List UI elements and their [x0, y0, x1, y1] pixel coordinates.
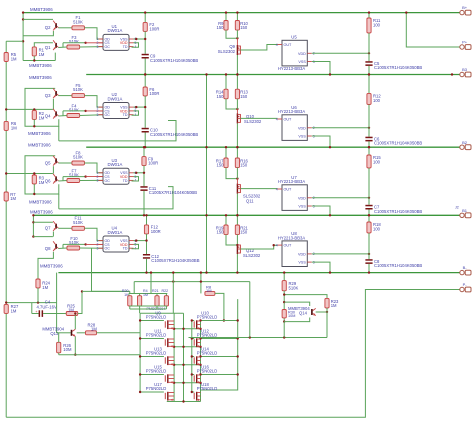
svg-text:1M: 1M	[39, 52, 45, 57]
wire net B+ top bus	[23, 12, 460, 14]
wire FET drain stubs right	[201, 320, 238, 322]
wire R12 to VDD node	[368, 105, 370, 128]
svg-text:VDD: VDD	[298, 52, 306, 56]
wire Q13 collector up	[74, 314, 76, 330]
wire FET gate taps	[140, 374, 164, 376]
wire Q13 emitter down	[74, 336, 76, 354]
wire gate drive line	[134, 281, 250, 283]
connector B-	[460, 270, 464, 274]
wire U2 VSS to F6 node	[134, 106, 146, 108]
wire gate line to cluster	[133, 282, 135, 294]
svg-text:TD: TD	[123, 247, 128, 251]
svg-text:150: 150	[240, 230, 248, 235]
svg-text:100R: 100R	[148, 161, 158, 166]
wire row4 left vertical	[32, 215, 34, 236]
wire U6 VSS line	[312, 136, 330, 147]
transistor U10 P75N02LD	[193, 321, 195, 327]
wire rail branch y302.6	[6, 302, 56, 304]
svg-text:Q6: Q6	[45, 178, 51, 183]
wire U1 VSS to F2 node	[134, 38, 146, 40]
svg-text:MMBT3906: MMBT3906	[29, 63, 52, 68]
svg-text:510K: 510K	[73, 19, 83, 24]
svg-text:4: 4	[276, 243, 278, 247]
svg-text:4: 4	[276, 43, 278, 47]
svg-text:C1005X7R1H104K050BB: C1005X7R1H104K050BB	[374, 141, 422, 146]
svg-text:1M: 1M	[11, 125, 17, 130]
wire U1 CS feedback	[63, 42, 86, 44]
resistor R25	[66, 312, 78, 316]
svg-text:C1005X7R1H104K050BB: C1005X7R1H104K050BB	[150, 132, 198, 137]
svg-text:VSS: VSS	[298, 205, 306, 209]
transistor Q7 MMBT3906	[55, 224, 57, 229]
svg-text:10M: 10M	[288, 314, 295, 318]
wire row3 left loop	[25, 156, 59, 194]
wire U4 right loop	[92, 248, 130, 291]
wire F12 to C12	[146, 234, 148, 254]
wire gate line down	[249, 282, 251, 338]
wire F1 to U1 OD	[85, 28, 104, 39]
svg-text:DW01A: DW01A	[108, 162, 123, 167]
wire C11 to bus	[143, 191, 145, 215]
svg-text:P75N02LD: P75N02LD	[197, 351, 218, 356]
wire Q14 emitter node down	[283, 322, 285, 338]
connector P+	[460, 45, 464, 49]
wire C12 column to cluster	[150, 273, 152, 294]
wire pair join	[226, 99, 237, 109]
wire FET drain stubs right	[201, 338, 238, 340]
wire U6 VDD line	[312, 127, 369, 129]
wire U5 VSS line	[312, 62, 330, 75]
op-amp U5 HY2213-BB3A	[282, 40, 307, 66]
wire Q8 collector	[33, 236, 53, 238]
wire F9 to C11	[143, 166, 145, 187]
wire R29 to Q14	[283, 291, 285, 322]
wire F2 to C9	[144, 31, 146, 53]
op-amp U4 DW01A	[103, 236, 129, 252]
wire Q4 base to F4	[58, 115, 66, 118]
wire F10 to U4 OC	[80, 247, 103, 249]
svg-text:OUT: OUT	[284, 43, 293, 47]
svg-text:Q5: Q5	[45, 160, 51, 165]
wire Q6 base to F7	[58, 180, 66, 183]
connector B1	[460, 213, 464, 217]
resistor R30	[282, 310, 286, 318]
svg-text:150: 150	[217, 230, 225, 235]
wire Q3 base to F5	[58, 95, 71, 97]
svg-text:P75N02LD: P75N02LD	[197, 369, 218, 374]
wire F11 to U4 OD	[85, 228, 104, 240]
wire FET array top rail	[140, 312, 183, 314]
resistor F8 510K	[72, 161, 85, 165]
resistor R20	[128, 296, 132, 306]
capacitor C12	[143, 254, 150, 256]
resistor R21	[155, 296, 159, 306]
svg-text:Q4: Q4	[45, 113, 51, 118]
wire Q11 source to bus	[236, 194, 238, 216]
transistor Q2 MMBT3906	[55, 23, 57, 28]
svg-text:U7: U7	[291, 175, 297, 180]
svg-text:510K: 510K	[73, 87, 83, 92]
svg-text:MMBT3906: MMBT3906	[40, 264, 63, 269]
svg-text:B-: B-	[463, 265, 468, 270]
wire FET gate taps	[140, 338, 164, 340]
wire P- net	[6, 290, 460, 418]
svg-text:4: 4	[276, 117, 278, 121]
op-amp U6 HY2213-BB3A	[282, 115, 307, 141]
connector B+	[460, 10, 464, 14]
svg-text:SLS2302: SLS2302	[244, 119, 262, 124]
transistor Q4 MMBT3906	[55, 111, 57, 116]
svg-text:P75N02LD: P75N02LD	[146, 369, 167, 374]
resistor R2	[32, 110, 36, 119]
wire net B- bus	[58, 272, 459, 274]
wire R24 bottom	[37, 288, 39, 303]
wire C10 to bus	[144, 133, 146, 148]
svg-text:Q13: Q13	[50, 331, 59, 336]
svg-text:1M: 1M	[10, 196, 16, 201]
svg-text:100R: 100R	[151, 229, 161, 234]
wire Q1 base to F3	[58, 46, 66, 49]
wire C4 to R25	[43, 313, 66, 315]
svg-text:U6: U6	[291, 105, 297, 110]
resistor F12 100R	[146, 215, 148, 225]
wire U3 CS feedback	[63, 176, 86, 178]
svg-text:100: 100	[373, 159, 381, 164]
svg-text:P75N02LD: P75N02LD	[146, 386, 167, 391]
svg-text:OUT: OUT	[284, 244, 293, 248]
svg-text:DW01A: DW01A	[108, 230, 123, 235]
wire Q5 base to F8	[58, 162, 71, 164]
wire R1 bottom	[33, 56, 35, 61]
capacitor C6	[368, 128, 370, 137]
wire pair join	[226, 235, 237, 245]
wire FET right rail	[201, 299, 238, 390]
resistor R7	[4, 192, 8, 201]
op-amp U1 DW01A	[103, 34, 129, 50]
transistor Q6 MMBT3906	[55, 176, 57, 181]
resistor R17	[224, 158, 228, 168]
wire F5 to U2 OD	[85, 96, 104, 108]
svg-text:Q2: Q2	[45, 25, 51, 30]
svg-text:OUT: OUT	[284, 118, 293, 122]
wire Q1 collector to R1	[34, 43, 53, 47]
svg-text:Q7: Q7	[45, 226, 51, 231]
wire net B2 bus	[86, 146, 460, 148]
capacitor C11	[140, 186, 147, 188]
svg-text:Q3: Q3	[45, 93, 51, 98]
svg-text:3: 3	[97, 246, 99, 250]
capacitor C8	[368, 254, 370, 260]
svg-text:U8: U8	[291, 231, 297, 236]
transistor U13 P75N02LD	[164, 357, 166, 363]
svg-text:B1: B1	[462, 208, 468, 213]
resistor F9 100R	[143, 147, 145, 156]
svg-text:MMBT3906: MMBT3906	[28, 142, 51, 147]
wire pair join	[226, 168, 237, 179]
wire U2 VDD hook	[132, 111, 139, 115]
connector P-	[460, 287, 464, 291]
resistor R13	[235, 89, 239, 99]
svg-text:1K: 1K	[124, 293, 129, 297]
svg-text:1M: 1M	[206, 288, 212, 293]
svg-text:C1005X7R1H104K050BB: C1005X7R1H104K050BB	[374, 65, 422, 70]
wire U4 VDD hook	[132, 244, 139, 248]
transistor Q12 SLS2302	[236, 244, 238, 254]
capacitor C9	[142, 54, 149, 56]
svg-text:P75N02LD: P75N02LD	[197, 315, 218, 320]
wire pair join	[226, 30, 237, 38]
wire C12 to bus	[146, 259, 148, 273]
wire FET gate taps	[140, 391, 164, 393]
wire U2 bottom loop	[59, 121, 176, 141]
wire F7 to U3 OC	[80, 179, 103, 181]
resistor R24	[36, 279, 40, 288]
capacitor C7	[368, 198, 370, 205]
transistor U12 P75N02LD	[193, 339, 195, 345]
wire Q7 emitter down	[52, 232, 54, 237]
wire U8 VDD line	[312, 253, 369, 255]
transistor Q9 SLS2302	[236, 45, 238, 55]
svg-text:R22: R22	[162, 289, 169, 293]
resistor F6 100R	[144, 75, 146, 88]
wire 150R pair row3	[225, 147, 227, 158]
wire Q3 emitter down	[52, 99, 54, 110]
wire FET left gate rail	[139, 313, 141, 392]
resistor R29	[283, 273, 285, 281]
svg-text:4.7UF-16V: 4.7UF-16V	[37, 304, 57, 309]
svg-text:B3: B3	[462, 67, 468, 72]
wire C7 to bus	[368, 210, 370, 216]
wire R15 to VDD node	[368, 168, 370, 198]
resistor R18	[368, 215, 370, 222]
resistor R28	[77, 332, 86, 334]
wire U4 VSS to F12 node	[134, 240, 147, 242]
transistor U9 P75N02LD	[164, 321, 166, 327]
wire Q14 output	[316, 311, 327, 313]
resistor R22	[164, 296, 168, 306]
wire P+ branch	[406, 13, 460, 47]
svg-text:4: 4	[276, 187, 278, 191]
transistor Q1 MMBT3906	[55, 43, 57, 48]
svg-text:OC: OC	[105, 179, 111, 183]
transistor Q8 MMBT3906	[55, 244, 57, 249]
wire U5 VDD line	[312, 52, 369, 54]
svg-text:SLS2302: SLS2302	[243, 253, 261, 258]
svg-text:10M: 10M	[63, 347, 72, 352]
svg-text:C1005X7R1H104K050BB: C1005X7R1H104K050BB	[374, 209, 422, 214]
wire Q12 source to bus	[236, 254, 238, 273]
op-amp U7 HY2213-BB3A	[282, 185, 307, 211]
svg-text:1M: 1M	[11, 308, 17, 313]
wire U8 VSS line	[312, 262, 330, 273]
svg-text:510K: 510K	[73, 220, 83, 225]
wire Q9 source to bus	[236, 55, 238, 75]
resistor F3 510K	[67, 45, 80, 49]
svg-text:DW01A: DW01A	[108, 28, 123, 33]
wire U4 CS feedback	[63, 243, 86, 245]
wire F3 to U1 OC	[80, 46, 103, 48]
svg-text:OC: OC	[105, 247, 111, 251]
capacitor C5	[368, 53, 370, 61]
svg-text:P75N02LD: P75N02LD	[146, 333, 167, 338]
resistor R14	[224, 89, 228, 99]
wire U2 CS feedback	[63, 110, 86, 112]
svg-text:Q1: Q1	[45, 45, 51, 50]
wire F8 to U3 OD	[85, 163, 104, 173]
wire U1 VDD hook	[132, 43, 139, 47]
svg-text:P75N02LD: P75N02LD	[146, 351, 167, 356]
svg-text:HY2213-BB3A: HY2213-BB3A	[278, 66, 305, 71]
svg-text:3: 3	[97, 179, 99, 183]
transistor Q11 SLS2302	[236, 184, 238, 194]
svg-text:Q8: Q8	[45, 246, 51, 251]
svg-text:150: 150	[217, 25, 225, 30]
resistor R19	[224, 225, 228, 235]
resistor R12	[368, 75, 370, 94]
svg-text:VDD: VDD	[298, 126, 306, 130]
resistor R21	[235, 225, 239, 235]
wire U7 VDD line	[312, 197, 369, 199]
wire U7 VSS line	[312, 206, 330, 215]
svg-text:C1005X7R1H104K050BB: C1005X7R1H104K050BB	[150, 58, 198, 63]
svg-text:1M: 1M	[331, 303, 337, 308]
wire Q8 emitter to R24	[38, 252, 53, 279]
transistor U18 P75N02LD	[193, 393, 195, 399]
svg-text:100: 100	[373, 226, 381, 231]
connector B3	[460, 72, 464, 76]
transistor U17 P75N02LD	[164, 393, 166, 399]
svg-text:P+: P+	[462, 40, 468, 45]
wire R11 to VDD node	[368, 33, 370, 53]
resistor R6	[4, 121, 8, 130]
wire R8 right to rail	[215, 293, 224, 320]
svg-text:OUT: OUT	[284, 188, 293, 192]
wire Q4 collector to R2	[34, 108, 53, 110]
svg-text:150: 150	[240, 163, 248, 168]
wire FET drain stubs right	[201, 356, 238, 358]
op-amp U2 DW01A	[103, 103, 129, 119]
wire R2 bottom	[33, 119, 35, 126]
wire 150R pair row1	[225, 13, 227, 21]
svg-text:P-: P-	[463, 282, 468, 287]
wire R25 to gate net	[78, 291, 82, 313]
wire U3 VDD hook	[132, 177, 139, 181]
wire U3 VSS to F9 node	[134, 172, 145, 174]
svg-text:B2: B2	[462, 140, 468, 145]
svg-text:VSS: VSS	[298, 135, 306, 139]
transistor U15 P75N02LD	[164, 375, 166, 381]
wire rail branch to R2	[6, 108, 34, 110]
resistor R10	[235, 21, 239, 31]
svg-text:MMBT3906: MMBT3906	[30, 7, 53, 12]
wire Q10 source to bus	[236, 123, 238, 147]
wire F6 to C10	[144, 96, 146, 128]
svg-text:DW01A: DW01A	[108, 96, 123, 101]
wire Q9 gate to U5 OUT	[240, 45, 277, 51]
svg-text:Q14: Q14	[299, 311, 308, 316]
wire Q14 out down	[326, 312, 328, 338]
svg-text:VSS: VSS	[298, 261, 306, 265]
svg-text:VDD: VDD	[298, 196, 306, 200]
svg-text:R21: R21	[152, 289, 159, 293]
svg-text:1M: 1M	[68, 308, 74, 313]
svg-text:1M: 1M	[143, 293, 148, 297]
wire right gate feed	[189, 337, 328, 339]
wire Q5 emitter down	[52, 166, 54, 173]
svg-text:J2: J2	[455, 206, 459, 210]
resistor F11 510K	[72, 226, 85, 230]
svg-text:150: 150	[240, 94, 248, 99]
svg-text:150: 150	[217, 163, 225, 168]
svg-text:3: 3	[97, 113, 99, 117]
resistor F7 510K	[67, 179, 80, 183]
wire FET right chain	[200, 321, 202, 402]
wire FET left chain	[173, 313, 175, 401]
wire sense vertical x206	[206, 75, 208, 273]
svg-text:TD: TD	[123, 113, 128, 117]
transistor Q5 MMBT3906	[55, 158, 57, 163]
svg-text:3: 3	[97, 45, 99, 49]
resistor R11	[368, 13, 370, 18]
resistor R23	[284, 295, 327, 299]
svg-text:1M: 1M	[42, 285, 48, 290]
svg-text:1M: 1M	[11, 56, 17, 61]
resistor R4	[138, 296, 142, 306]
svg-text:100R: 100R	[149, 26, 159, 31]
wire Q11 gate to U7 OUT	[240, 188, 277, 190]
connector B2	[460, 145, 464, 149]
resistor F1 510K	[72, 26, 85, 30]
wire C9 to bus	[144, 59, 146, 75]
resistor F5 510K	[72, 94, 85, 98]
wire FET drain stubs right	[201, 374, 238, 376]
resistor R3	[32, 175, 36, 184]
resistor F4 510K	[67, 114, 80, 118]
op-amp U8 HY2213-BB3A	[282, 241, 307, 267]
transistor U11 P75N02LD	[164, 339, 166, 345]
svg-text:150: 150	[217, 94, 225, 99]
wire cluster bottom rail	[130, 305, 167, 307]
wire C6 to bus	[368, 141, 370, 147]
wire 150R pair row4	[225, 215, 227, 225]
wire U3 bottom loop	[59, 187, 173, 209]
wire vertical from B- bus	[56, 273, 58, 333]
wire Q6 collector to R3	[34, 173, 53, 175]
svg-text:510K: 510K	[73, 155, 83, 160]
svg-text:MMBT3906: MMBT3906	[29, 75, 52, 80]
wire FET source link	[174, 382, 200, 384]
svg-text:100R: 100R	[149, 91, 159, 96]
resistor R8	[200, 273, 202, 294]
wire cluster top rail	[129, 293, 167, 295]
svg-text:P75N02LD: P75N02LD	[197, 386, 218, 391]
svg-text:MMBT3906: MMBT3906	[28, 131, 51, 136]
svg-text:1M: 1M	[91, 326, 97, 331]
svg-text:B+: B+	[462, 5, 468, 10]
svg-text:100: 100	[373, 22, 381, 27]
svg-text:TD: TD	[123, 179, 128, 183]
wire Q2 base to F1	[58, 27, 71, 29]
svg-text:510K: 510K	[289, 285, 299, 290]
wire net B3 bus	[86, 74, 460, 76]
transistor U16 P75N02LD	[193, 375, 195, 381]
svg-text:150: 150	[240, 25, 248, 30]
svg-text:OC: OC	[105, 113, 111, 117]
wire 150R pair row2	[225, 75, 227, 90]
resistor R9	[224, 21, 228, 31]
resistor R1	[32, 47, 36, 56]
resistor R16	[235, 158, 239, 168]
